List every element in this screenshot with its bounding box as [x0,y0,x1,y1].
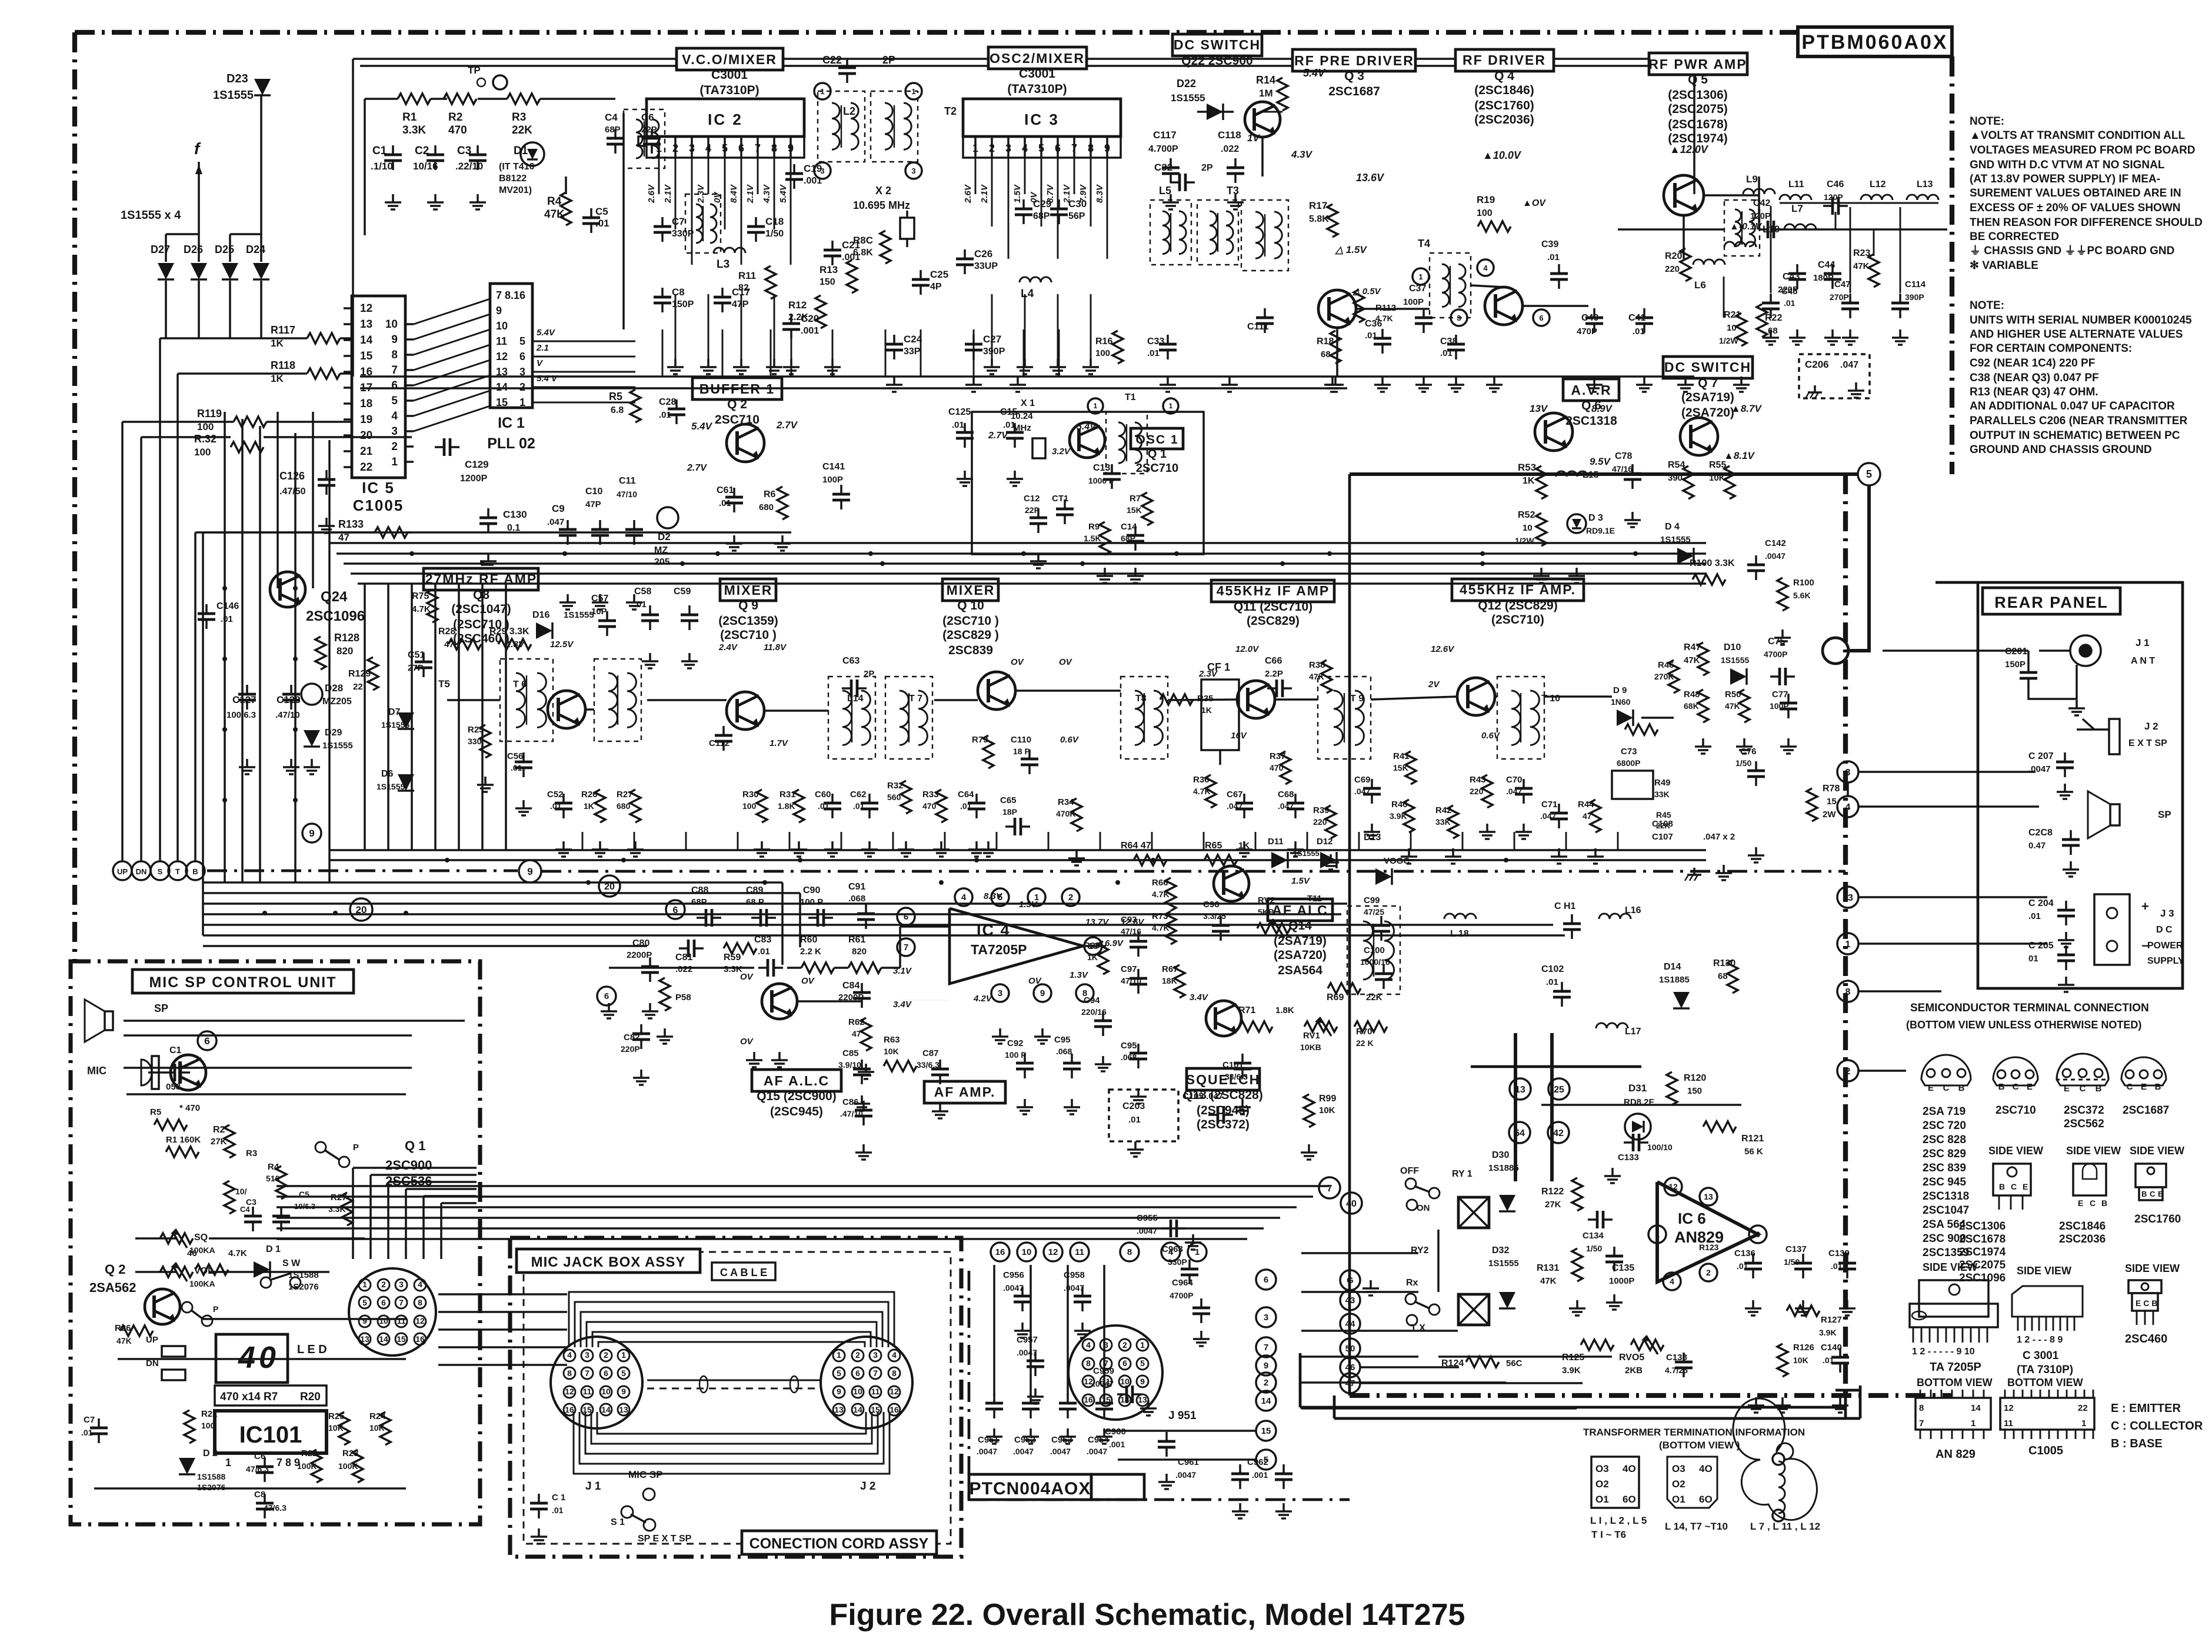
svg-text:1S2076: 1S2076 [197,1483,225,1492]
svg-text:2P: 2P [864,669,874,679]
svg-text:4.7K: 4.7K [228,1248,247,1258]
svg-text:1: 1 [1655,1230,1660,1239]
IC U2 C3001 [647,99,804,136]
svg-text:6: 6 [1539,314,1543,322]
svg-text:2: 2 [1264,1378,1268,1388]
svg-text:1S1555: 1S1555 [1660,535,1691,545]
svg-text:C42: C42 [1753,198,1770,208]
svg-text:14: 14 [601,1405,611,1414]
capacitor [993,1394,995,1403]
svg-text:D 2: D 2 [203,1448,218,1458]
svg-text:6.8: 6.8 [611,405,624,415]
svg-text:.068: .068 [1056,1047,1072,1056]
capacitor [688,605,691,615]
svg-text:15: 15 [397,1334,406,1344]
svg-text:15: 15 [1261,1426,1271,1436]
svg-text:.47/10: .47/10 [275,710,300,720]
svg-text:2SA 719: 2SA 719 [1923,1105,1966,1118]
svg-text:Q 1: Q 1 [1148,448,1167,461]
svg-text:1S1588: 1S1588 [197,1472,225,1481]
svg-text:Q12 (2SC829): Q12 (2SC829) [1478,599,1557,612]
svg-text:10K: 10K [884,1047,899,1056]
svg-text:.0047: .0047 [2028,764,2051,774]
svg-text:10K: 10K [1793,1355,1808,1365]
svg-text:.01: .01 [1784,298,1795,308]
svg-text:C7: C7 [672,216,685,227]
svg-text:8: 8 [1127,1247,1132,1257]
ground [1899,329,1901,338]
svg-text:D13: D13 [1364,832,1381,842]
capacitor [1234,158,1237,168]
svg-text:R21: R21 [201,1409,218,1419]
svg-text:C10: C10 [585,487,602,497]
stage A.V.R [1563,379,1619,401]
svg-text:MIC SP CONTROL UNIT: MIC SP CONTROL UNIT [149,974,337,991]
svg-text:1000P: 1000P [1609,1276,1634,1286]
svg-text:2.1V: 2.1V [663,184,673,204]
svg-text:5: 5 [391,395,398,407]
capacitor [1381,329,1384,338]
svg-text:R133: R133 [338,518,364,530]
svg-text:5KB: 5KB [1258,907,1274,917]
svg-text:13.7V: 13.7V [1085,917,1110,927]
svg-text:MIC: MIC [87,1065,106,1077]
svg-text:J 3: J 3 [2160,908,2174,919]
svg-text:2: 2 [1122,1340,1127,1350]
svg-text:E: E [1928,1083,1934,1093]
svg-text:0.1: 0.1 [507,523,520,533]
svg-text:1: 1 [1195,1247,1200,1257]
node 3 [1837,761,1858,782]
svg-text:R100: R100 [1793,578,1814,588]
svg-text:C114: C114 [1905,279,1926,289]
svg-text:2SC1687: 2SC1687 [2123,1104,2169,1117]
svg-text:E: E [2027,1082,2033,1092]
resistor [630,389,641,422]
resistor [1405,751,1416,784]
svg-text:9: 9 [309,828,314,839]
svg-text:B: B [2101,1198,2107,1208]
svg-text:4: 4 [567,1350,572,1360]
capacitor [649,957,651,967]
inductor coil [1778,1461,1785,1513]
ground [1137,1088,1140,1097]
ground [1452,848,1454,857]
svg-text:R16: R16 [1095,337,1112,347]
ground [831,841,834,850]
svg-text:19: 19 [360,414,372,426]
transistor [1318,290,1356,328]
svg-text:4.7K: 4.7K [412,604,431,614]
inductor coil [1179,211,1186,254]
ground [1743,738,1745,747]
svg-text:12: 12 [2004,1403,2014,1413]
inductor coil [1384,921,1394,980]
ground [1081,1323,1084,1331]
capacitor [1588,1218,1597,1221]
node 13 [1510,1078,1531,1100]
ground [1831,329,1834,338]
svg-text:2200P: 2200P [627,950,652,960]
svg-text:3: 3 [1457,314,1461,322]
svg-text:5: 5 [1866,468,1872,480]
resistor [1354,289,1364,322]
svg-text:SIDE VIEW: SIDE VIEW [2017,1265,2071,1277]
svg-text:C129: C129 [465,459,489,470]
svg-text:820: 820 [337,645,353,657]
svg-text:470 x14 R7: 470 x14 R7 [220,1391,278,1403]
ground [1796,329,1798,338]
node 47 [1340,1373,1360,1393]
ground [1134,1141,1137,1150]
svg-text:T8: T8 [1135,694,1147,704]
inductor coil [851,103,858,149]
svg-text:8: 8 [892,1368,897,1378]
resistor [368,657,378,690]
resistor [983,735,994,768]
svg-text:D22: D22 [1177,78,1196,89]
svg-text:C117: C117 [1153,129,1177,141]
inductor coil [1118,422,1125,463]
inductor coil [636,119,642,158]
svg-text:C63: C63 [842,656,860,666]
svg-text:.068: .068 [848,894,865,904]
svg-text:1S1885: 1S1885 [1659,975,1690,985]
svg-text:D6: D6 [381,769,394,779]
svg-text:8: 8 [1919,1403,1924,1413]
ground [831,359,834,367]
svg-text:C A B L E: C A B L E [720,1267,767,1278]
svg-text:X 1: X 1 [1021,398,1035,408]
capacitor [280,1207,282,1216]
node 6 [198,1031,216,1050]
REAR PANEL box [1978,582,2183,988]
svg-text:C13: C13 [1093,463,1110,473]
ground [1593,377,1595,385]
svg-text:C112: C112 [709,738,729,748]
svg-text:8.9V: 8.9V [1591,403,1613,414]
svg-text:1S1885: 1S1885 [1488,1163,1519,1173]
svg-text:47K: 47K [1853,261,1870,271]
svg-text:1K: 1K [1087,952,1098,962]
svg-text:D24: D24 [246,244,265,255]
capacitor [599,520,601,529]
svg-text:330P: 330P [1168,1257,1187,1267]
svg-text:C73: C73 [1621,747,1637,757]
capacitor [264,1494,266,1503]
svg-text:5.4V: 5.4V [537,328,556,338]
svg-text:1.5V: 1.5V [1012,184,1022,203]
svg-text:4.3V: 4.3V [1291,149,1313,160]
svg-text:4.2V: 4.2V [973,994,993,1004]
ground [893,377,895,385]
svg-text:0.6V: 0.6V [1060,735,1080,745]
inductor coil [537,673,546,727]
svg-text:2.6V: 2.6V [963,184,973,204]
svg-text:C: C [1943,1083,1950,1093]
inductor coil [1749,209,1755,247]
svg-text:C38 (NEAR Q3) 0.047 PF: C38 (NEAR Q3) 0.047 PF [1970,372,2099,384]
svg-text:4700P: 4700P [1764,650,1787,659]
ground [1170,194,1172,202]
svg-text:C134: C134 [1583,1231,1604,1241]
ground [1576,1300,1578,1308]
inductor coil [1363,921,1373,980]
node 2 [1062,888,1080,906]
diode [1271,852,1288,868]
capacitor [392,145,394,155]
ground [567,594,569,602]
ground [939,1103,941,1111]
node 9 [1034,984,1051,1002]
svg-text:2SA562: 2SA562 [89,1280,136,1295]
svg-text:1: 1 [1971,1418,1976,1428]
svg-text:R6: R6 [764,489,776,499]
svg-text:23: 23 [1843,893,1853,903]
svg-text:1000/16: 1000/16 [1360,957,1390,967]
svg-text:2.1V: 2.1V [745,184,755,204]
resistor [166,1147,199,1157]
svg-text:C4: C4 [240,1205,250,1214]
capacitor [1220,916,1222,925]
svg-text:UNITS WITH SERIAL NUMBER K0001: UNITS WITH SERIAL NUMBER K00010245 [1970,314,2192,327]
resistor [375,527,408,538]
svg-text:R71: R71 [1238,1005,1255,1015]
capacitor [1770,675,1780,678]
ground [608,1003,610,1011]
svg-text:4: 4 [1483,264,1488,272]
svg-text:IC 2: IC 2 [708,111,743,128]
svg-text:.47/50: .47/50 [279,487,306,497]
svg-text:2SC 839: 2SC 839 [1923,1162,1966,1174]
ground [778,1052,781,1060]
svg-text:BOTTOM VIEW: BOTTOM VIEW [2007,1377,2083,1388]
svg-text:2SA564: 2SA564 [1278,964,1322,977]
svg-text:C137: C137 [1785,1244,1807,1254]
diode [527,149,538,159]
svg-text:Q 5: Q 5 [1688,73,1708,86]
svg-text:Q 3: Q 3 [1344,69,1364,83]
svg-text:L9: L9 [1746,174,1758,185]
ground [1523,824,1525,832]
resistor [1240,1021,1272,1032]
svg-text:1: 1 [1094,402,1098,410]
svg-text:9: 9 [391,334,398,346]
svg-text:C957: C957 [1017,1335,1038,1345]
svg-text:3: 3 [820,166,824,175]
svg-text:C4: C4 [605,112,618,123]
capacitor [846,58,848,68]
capacitor [661,217,664,227]
resistor [444,94,477,104]
svg-text:D C: D C [2156,925,2173,935]
capacitor [640,1024,642,1034]
node 7 [1319,1177,1340,1198]
capacitor [1165,1432,1168,1441]
ground [484,777,487,785]
svg-text:C91: C91 [848,882,865,892]
svg-text:2SC1846: 2SC1846 [2059,1220,2106,1233]
resistor [448,639,481,650]
svg-text:18: 18 [360,398,372,410]
svg-text:L I , L 2 , L 5: L I , L 2 , L 5 [1590,1515,1647,1526]
node 50 [1340,1338,1360,1358]
svg-text:(2SA720): (2SA720) [1681,406,1734,419]
svg-text:D16: D16 [532,610,549,620]
svg-text:MIC JACK BOX ASSY: MIC JACK BOX ASSY [531,1254,686,1270]
node 6 [666,900,685,919]
svg-text:2SC1678: 2SC1678 [1959,1233,2006,1245]
capacitor [1839,1348,1841,1357]
transistor [1457,678,1495,715]
node 23 [1837,887,1858,908]
svg-text:10: 10 [385,318,398,331]
svg-text:D14: D14 [1664,962,1681,972]
svg-text:C19: C19 [804,163,822,174]
svg-text:47: 47 [852,1029,861,1038]
ground [1787,738,1790,747]
svg-text:.047 x 2: .047 x 2 [1703,832,1735,842]
svg-text:REAR PANEL: REAR PANEL [1994,594,2108,611]
svg-text:L 7 , L 11 , L 12: L 7 , L 11 , L 12 [1750,1521,1820,1532]
stage RF DRIVER [1455,49,1554,71]
svg-text:C133: C133 [1618,1153,1639,1163]
svg-text:2.2P: 2.2P [1265,669,1283,679]
resistor [1698,642,1708,675]
node 3 [1256,1307,1276,1327]
svg-text:3: 3 [399,1280,404,1289]
svg-text:C1005: C1005 [2028,1444,2063,1457]
ground [477,194,479,202]
ground [1041,1028,1044,1037]
svg-text:47/10: 47/10 [617,489,637,499]
svg-text:C110: C110 [1011,735,1031,745]
node 43 [1340,1290,1360,1310]
svg-text:2.4V: 2.4V [718,642,738,652]
ground [999,1028,1001,1037]
svg-text:1: 1 [837,1350,841,1360]
svg-text:6.8K: 6.8K [853,248,873,258]
IC1 PLL02 [490,284,532,408]
capacitor [1167,335,1169,344]
svg-text:4: 4 [1670,1277,1674,1286]
svg-text:3.2V: 3.2V [1052,447,1071,457]
svg-text:C 205: C 205 [2028,941,2054,951]
svg-text:1M: 1M [1259,88,1273,99]
inductor [1020,277,1051,282]
capacitor [2064,752,2066,762]
svg-text:C29: C29 [1033,198,1051,209]
svg-text:14: 14 [379,1334,388,1344]
svg-text:4.700P: 4.700P [1148,144,1178,154]
ground [964,471,966,479]
svg-text:14: 14 [1971,1403,1981,1413]
svg-text:C25: C25 [930,269,948,280]
svg-text:SIDE VIEW: SIDE VIEW [2130,1145,2184,1157]
svg-text:1S1555: 1S1555 [564,610,594,620]
resistor [1572,1248,1583,1281]
svg-text:3.4V: 3.4V [1190,992,1209,1002]
svg-text:T 7: T 7 [909,694,922,704]
svg-text:11: 11 [583,1387,592,1396]
capacitor [840,485,842,494]
transistor [1535,413,1573,451]
ground [798,841,800,850]
ground [987,841,990,850]
svg-text:T5: T5 [438,678,450,690]
svg-text:Rx: Rx [1406,1278,1418,1288]
inductor coil [516,673,525,727]
ground [1381,377,1384,385]
svg-text:R78: R78 [1823,784,1840,794]
resistor [630,790,641,822]
capacitor [1034,1351,1037,1361]
ground [1024,1099,1026,1107]
svg-text:2SC1318: 2SC1318 [1565,414,1617,428]
svg-text:1 2 - - - - - 9 10: 1 2 - - - - - 9 10 [1912,1347,1975,1357]
svg-text:R14: R14 [1256,74,1275,86]
ground [2076,700,2078,708]
svg-text:A N T: A N T [2131,656,2155,666]
ground [761,841,763,850]
ground [1849,329,1851,338]
svg-text:D 9: D 9 [1613,685,1627,695]
ground [1740,377,1743,385]
ground [325,518,328,526]
svg-text:7: 7 [873,1368,878,1378]
resistor [224,1181,235,1214]
ground [1014,471,1016,479]
diode [1375,868,1392,885]
diode [398,712,414,729]
node G [1340,1270,1360,1290]
ground [2065,932,2067,940]
ground [733,535,735,544]
ground [865,1064,867,1072]
svg-text:16: 16 [995,1247,1005,1257]
svg-text:E : EMITTER: E : EMITTER [2111,1402,2181,1415]
inductor coil [1458,264,1465,307]
svg-text:R61: R61 [848,935,865,945]
svg-text:1: 1 [911,87,915,96]
svg-text:8: 8 [1086,1358,1091,1368]
resistor [1277,78,1288,111]
svg-text:.01: .01 [1147,348,1160,358]
resistor [1404,800,1414,832]
inductor [1693,259,1725,265]
svg-text:C45: C45 [1781,287,1798,297]
capacitor [842,687,851,690]
node 6 [597,987,616,1005]
svg-text:C102: C102 [1541,964,1564,974]
inductor coil [1355,691,1364,745]
svg-text:9: 9 [621,1387,626,1396]
ground [1075,850,1078,858]
svg-text:5.6K: 5.6K [1793,591,1811,600]
svg-text:(2SA719): (2SA719) [1681,391,1734,404]
capacitor [1030,1394,1032,1403]
svg-text:R20: R20 [1665,251,1682,261]
svg-text:.0047: .0047 [1003,1283,1024,1293]
svg-text:OV: OV [801,976,815,986]
svg-text:100/6.3: 100/6.3 [226,710,256,720]
transformer [1241,200,1288,271]
svg-text:13: 13 [1704,1192,1713,1201]
capacitor [422,652,425,662]
svg-text:100/10: 100/10 [1647,1143,1673,1152]
svg-text:15: 15 [496,397,508,408]
svg-text:5: 5 [1140,1358,1145,1368]
